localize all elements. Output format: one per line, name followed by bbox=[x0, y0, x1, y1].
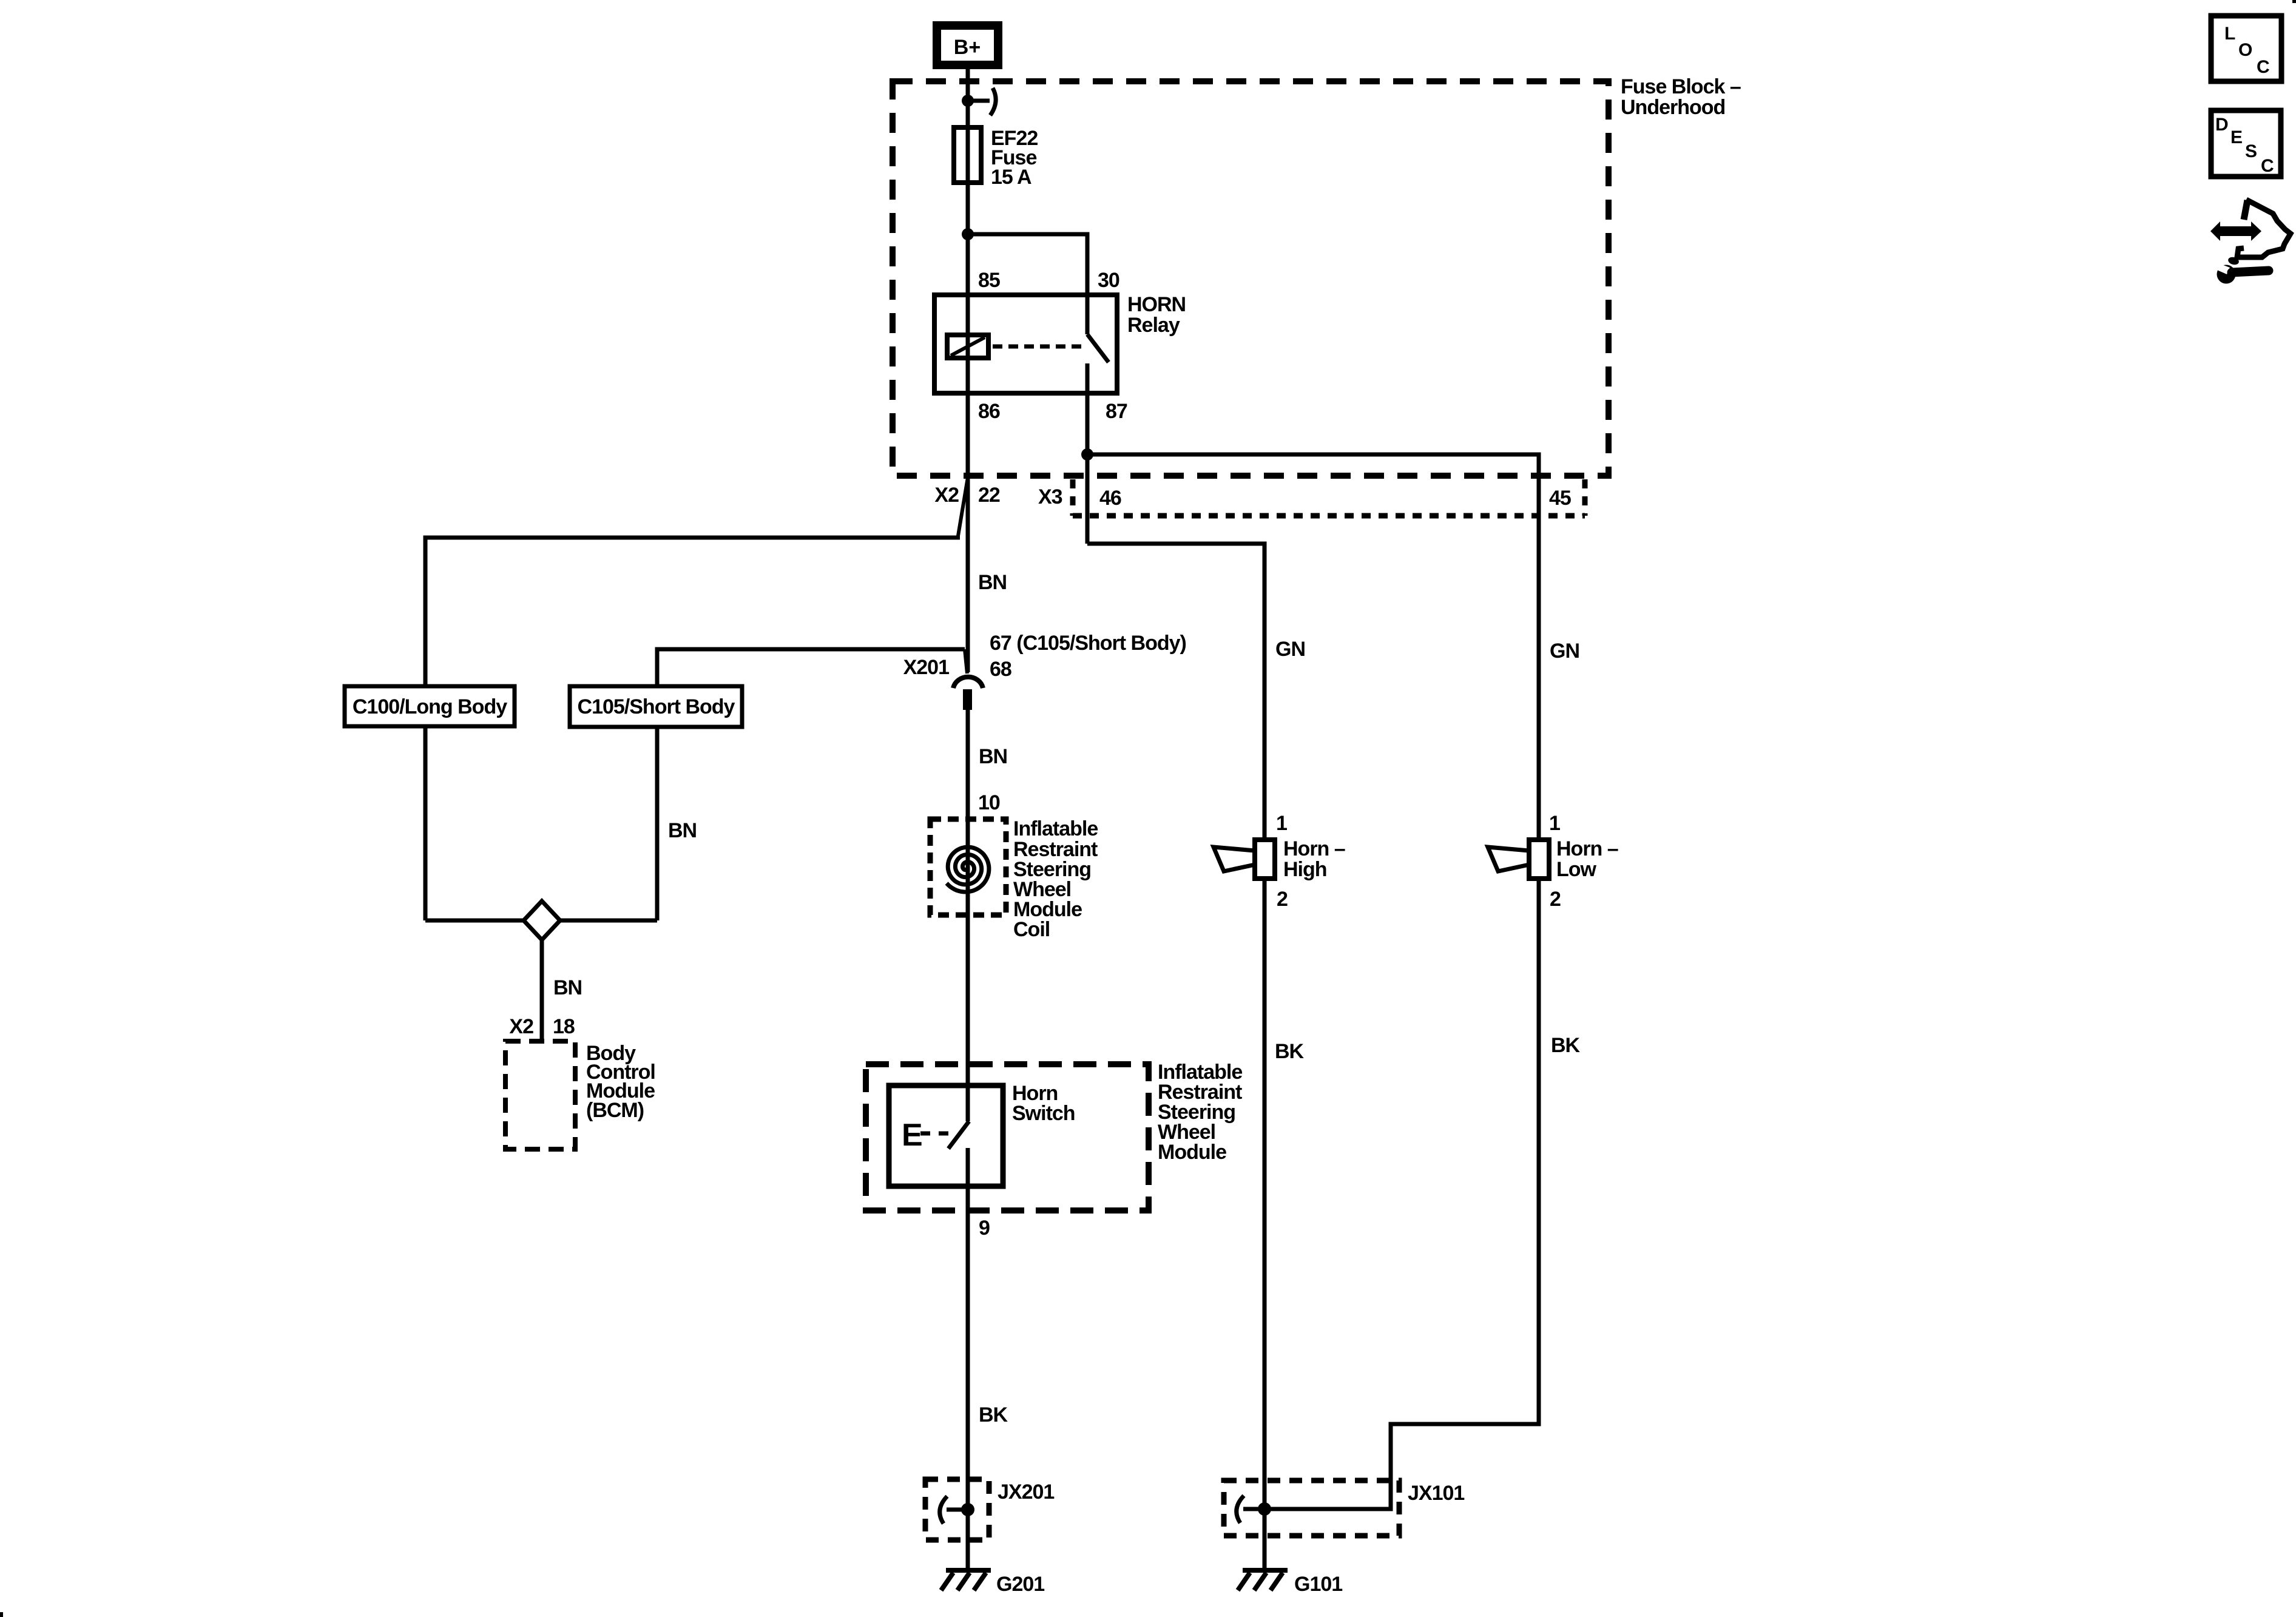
svg-text:JX201: JX201 bbox=[998, 1480, 1054, 1504]
switch S: horn switch box bbox=[889, 1085, 1003, 1186]
service icon: double arrow bbox=[2210, 221, 2261, 241]
LOC legend box bbox=[2211, 16, 2281, 81]
svg-text:G101: G101 bbox=[1294, 1573, 1342, 1596]
svg-text:18: 18 bbox=[553, 1015, 575, 1038]
wire relay 87 down bbox=[1086, 393, 1090, 544]
svg-text:9: 9 bbox=[979, 1217, 990, 1240]
svg-text:2: 2 bbox=[1550, 888, 1561, 911]
relay switch blade bbox=[1087, 295, 1109, 393]
wire fuse to relay pin 85 bbox=[966, 183, 970, 295]
label EF22 Fuse 15 A bbox=[991, 127, 1038, 189]
fuse EF22 bbox=[954, 127, 981, 183]
wire through coil box bbox=[966, 819, 970, 915]
wire branch to C105 from X201 bbox=[657, 649, 965, 920]
svg-text:Fuse Block –: Fuse Block – bbox=[1621, 75, 1741, 98]
wire B+ to fuse bbox=[966, 67, 970, 129]
wire branch to relay pin 30 bbox=[968, 234, 1087, 295]
svg-text:Inflatable: Inflatable bbox=[1013, 817, 1098, 840]
svg-text:X2: X2 bbox=[934, 484, 959, 507]
horn pad symbol E bbox=[902, 1118, 950, 1153]
bus tap symbol bbox=[968, 88, 996, 115]
svg-text:68: 68 bbox=[990, 658, 1011, 681]
svg-text:Coil: Coil bbox=[1013, 918, 1050, 941]
svg-text:C: C bbox=[2261, 156, 2274, 176]
splice diamond bbox=[425, 901, 657, 940]
svg-text:JX101: JX101 bbox=[1408, 1482, 1464, 1505]
label Inflatable Restraint Steering Wheel Module Coil bbox=[1013, 817, 1098, 941]
splice JX101 bbox=[1224, 1480, 1399, 1536]
svg-text:BK: BK bbox=[1551, 1034, 1581, 1057]
svg-text:BN: BN bbox=[668, 819, 697, 842]
label Fuse Block - Underhood bbox=[1621, 75, 1741, 119]
svg-text:X2: X2 bbox=[509, 1015, 533, 1038]
svg-text:Module: Module bbox=[1158, 1141, 1226, 1164]
ground G101 bbox=[1238, 1570, 1288, 1590]
svg-text:E: E bbox=[902, 1118, 923, 1153]
svg-text:BN: BN bbox=[978, 571, 1007, 594]
wire relay 86 down to connector X2-22 bbox=[966, 393, 970, 672]
svg-text:G201: G201 bbox=[996, 1573, 1044, 1596]
svg-text:X201: X201 bbox=[903, 656, 949, 679]
wire coil to horn switch bbox=[966, 915, 970, 1085]
wire horn high to ground bbox=[1263, 879, 1267, 1570]
svg-text:L: L bbox=[2224, 24, 2235, 44]
stray mark top right bbox=[2292, 0, 2296, 3]
svg-text:O: O bbox=[2238, 40, 2252, 60]
svg-text:BN: BN bbox=[553, 976, 582, 999]
svg-text:B+: B+ bbox=[954, 36, 981, 59]
svg-text:High: High bbox=[1283, 858, 1327, 881]
service icon: hand outline bbox=[2237, 200, 2291, 257]
svg-text:30: 30 bbox=[1098, 269, 1119, 292]
svg-text:87: 87 bbox=[1106, 400, 1127, 423]
svg-text:86: 86 bbox=[978, 400, 1000, 423]
svg-text:Underhood: Underhood bbox=[1621, 96, 1725, 119]
svg-text:10: 10 bbox=[978, 791, 1000, 814]
horn switch blade bbox=[948, 1085, 969, 1186]
svg-text:46: 46 bbox=[1099, 487, 1121, 510]
junction dot 87 branch bbox=[1081, 448, 1093, 461]
module: steering wheel module dashed box bbox=[866, 1064, 1149, 1210]
svg-text:E: E bbox=[2230, 127, 2243, 147]
wire through relay coil bbox=[966, 295, 970, 393]
svg-text:1: 1 bbox=[1276, 812, 1287, 835]
junction dot relay feed bbox=[962, 228, 974, 240]
relay coil bbox=[947, 335, 988, 358]
svg-text:Switch: Switch bbox=[1012, 1102, 1075, 1125]
wire diamond to BCM bbox=[540, 940, 544, 1044]
DESC legend box bbox=[2211, 110, 2281, 177]
svg-text:X3: X3 bbox=[1038, 485, 1062, 508]
ground G201 bbox=[941, 1570, 991, 1590]
wire branch to C100 bbox=[425, 538, 960, 920]
relay K: HORN Relay box bbox=[934, 295, 1117, 393]
connector slant X2-22 bbox=[958, 478, 968, 536]
label Horn Switch bbox=[1012, 1082, 1075, 1125]
svg-text:GN: GN bbox=[1275, 638, 1305, 661]
module U: Body Control Module dashed box bbox=[505, 1041, 575, 1149]
svg-text:(BCM): (BCM) bbox=[586, 1099, 644, 1122]
service icon: wrench bbox=[2213, 256, 2269, 284]
power terminal B+ bbox=[933, 21, 1002, 69]
connector C100/Long Body bbox=[345, 686, 515, 726]
svg-text:C100/Long Body: C100/Long Body bbox=[353, 695, 507, 718]
relay actuator dashed link bbox=[993, 345, 1085, 349]
label Body Control Module (BCM) bbox=[586, 1042, 655, 1122]
horn low symbol bbox=[1488, 840, 1549, 879]
fuse block dashed border bbox=[893, 81, 1609, 476]
clockspring coil spiral bbox=[947, 847, 989, 892]
svg-text:C: C bbox=[2257, 57, 2270, 77]
connector X201 bbox=[953, 649, 983, 710]
svg-text:2: 2 bbox=[1277, 888, 1288, 911]
svg-text:Horn –: Horn – bbox=[1556, 837, 1618, 860]
wire horn switch to JX201 bbox=[966, 1186, 970, 1570]
svg-text:S: S bbox=[2245, 141, 2257, 161]
label Inflatable Restraint Steering Wheel Module bbox=[1158, 1061, 1242, 1164]
svg-text:85: 85 bbox=[978, 269, 1000, 292]
svg-text:45: 45 bbox=[1549, 487, 1571, 510]
svg-text:BN: BN bbox=[979, 745, 1007, 768]
label Horn - High bbox=[1283, 837, 1345, 881]
svg-text:HORN: HORN bbox=[1127, 293, 1186, 316]
svg-text:GN: GN bbox=[1550, 640, 1579, 663]
svg-text:22: 22 bbox=[978, 484, 1000, 507]
svg-text:Relay: Relay bbox=[1127, 314, 1180, 337]
svg-text:BK: BK bbox=[979, 1403, 1008, 1426]
label Horn - Low bbox=[1556, 837, 1618, 881]
stray mark bottom left bbox=[0, 1612, 3, 1617]
splice JX201 bbox=[925, 1479, 989, 1540]
svg-text:BK: BK bbox=[1275, 1040, 1305, 1063]
svg-text:15 A: 15 A bbox=[991, 166, 1032, 189]
wire inside fuse bbox=[966, 129, 970, 183]
svg-text:1: 1 bbox=[1549, 812, 1560, 835]
connector C105/Short Body bbox=[570, 686, 742, 727]
wire X201 to coil bbox=[966, 710, 970, 819]
wire to horn low column bbox=[1087, 454, 1539, 840]
wire to horn high column bbox=[1087, 544, 1264, 840]
svg-text:Horn –: Horn – bbox=[1283, 837, 1345, 860]
svg-text:Low: Low bbox=[1556, 858, 1597, 881]
label HORN Relay bbox=[1127, 293, 1186, 337]
svg-text:D: D bbox=[2215, 115, 2229, 135]
horn high symbol bbox=[1214, 840, 1275, 879]
svg-text:C105/Short Body: C105/Short Body bbox=[578, 695, 735, 718]
module: steering wheel coil dashed box bbox=[930, 819, 1006, 915]
junction dot at fuse tap bbox=[962, 95, 974, 107]
svg-text:67 (C105/Short Body): 67 (C105/Short Body) bbox=[990, 632, 1186, 655]
connector X3 strip bbox=[1073, 479, 1585, 516]
wire horn low down bbox=[1264, 879, 1539, 1509]
